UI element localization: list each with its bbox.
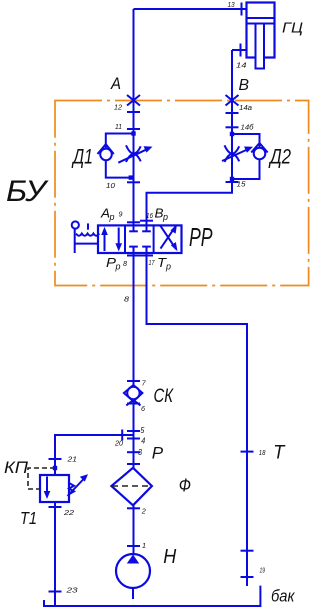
- wire Bp line (Д2 down to valve port Bp): [147, 179, 233, 226]
- svg-text:А: А: [100, 207, 110, 221]
- pin tick 11: [127, 128, 140, 130]
- pin tick 16: [140, 220, 153, 222]
- pin tick 6: [127, 403, 140, 405]
- svg-text:КП: КП: [4, 459, 28, 477]
- svg-text:11: 11: [115, 122, 122, 131]
- svg-text:ГЦ: ГЦ: [282, 20, 303, 37]
- throttle Д1 assembly: [98, 131, 153, 179]
- filter Ф: [111, 464, 151, 508]
- svg-text:17: 17: [149, 260, 156, 267]
- svg-text:20: 20: [114, 439, 124, 448]
- svg-text:18: 18: [259, 450, 266, 457]
- svg-text:10: 10: [106, 181, 116, 190]
- svg-text:16: 16: [146, 213, 153, 220]
- arrow of Д1 adjustable: [118, 148, 149, 162]
- wire branch to relief valve Т1: [55, 435, 134, 475]
- tank бак: [44, 586, 260, 606]
- node A crossing mark: [127, 95, 140, 106]
- pin tick 15: [226, 181, 239, 183]
- position 1 parallel arrows: [104, 231, 106, 251]
- directional valve РР: [98, 224, 182, 253]
- pin tick 2: [127, 507, 140, 509]
- svg-text:БУ: БУ: [6, 175, 49, 208]
- pin tick 8: [127, 255, 140, 257]
- cylinder ГЦ: [247, 3, 275, 69]
- svg-text:Р: Р: [152, 444, 164, 463]
- svg-text:бак: бак: [271, 587, 295, 606]
- svg-text:А: А: [110, 75, 121, 93]
- svg-text:12: 12: [114, 103, 123, 112]
- pin tick 1: [127, 545, 140, 547]
- svg-text:14а: 14а: [239, 105, 252, 112]
- node junction dot Д1 top: [131, 131, 135, 135]
- svg-text:р: р: [109, 212, 115, 223]
- pin tick 21: [49, 458, 62, 460]
- throttle Д2 assembly: [222, 132, 268, 181]
- svg-text:15: 15: [237, 180, 247, 189]
- check valve of Д1 (circle and seat): [100, 149, 112, 161]
- svg-text:23: 23: [65, 586, 78, 595]
- svg-text:р: р: [165, 262, 171, 273]
- svg-text:5: 5: [140, 426, 144, 435]
- position 2 closed center T stubs: [133, 225, 135, 231]
- svg-text:Т1: Т1: [20, 508, 37, 528]
- pin tick filter top: [127, 463, 140, 465]
- arrow of Д2 adjustable: [222, 149, 250, 162]
- svg-text:19: 19: [260, 568, 266, 575]
- relief valve Т1: [28, 459, 88, 606]
- pin tick 3: [127, 451, 140, 453]
- svg-text:14б: 14б: [241, 124, 255, 132]
- pin tick 22: [49, 506, 62, 508]
- lever control of РР: [72, 221, 100, 253]
- svg-text:2: 2: [141, 507, 147, 516]
- node B crossing mark: [226, 95, 239, 106]
- pilot dashed line КП: [28, 468, 55, 489]
- svg-text:Ф: Ф: [179, 476, 191, 496]
- svg-text:21: 21: [66, 455, 77, 464]
- frame БУ dash-dot border: [55, 101, 309, 286]
- pin tick 10: [127, 181, 140, 183]
- wire cylinder port 14 stub: [232, 49, 247, 51]
- pin tick 7: [127, 380, 140, 382]
- wire P line (valve Pp down to pump): [133, 253, 135, 554]
- pin tick 14б: [226, 126, 239, 128]
- svg-text:Д2: Д2: [268, 146, 291, 169]
- position 3 crossed arrows: [161, 226, 177, 249]
- pin tick T upper: [241, 550, 254, 552]
- svg-text:В: В: [239, 77, 250, 94]
- wire A line (main vertical from top to valve Ap): [133, 9, 135, 226]
- svg-text:Н: Н: [163, 545, 176, 568]
- svg-text:3: 3: [138, 448, 142, 457]
- throttle arcs of Д1: [126, 145, 141, 153]
- pin tick 5: [127, 430, 140, 432]
- pin tick 13: [241, 3, 243, 16]
- node junction dot Д1 bottom: [129, 175, 133, 179]
- svg-text:9: 9: [119, 212, 123, 219]
- svg-text:22: 22: [63, 508, 75, 517]
- valve body three squares: [98, 225, 182, 253]
- svg-text:СК: СК: [154, 386, 175, 407]
- pin tick 14: [240, 44, 242, 57]
- wire top horizontal from A line to cylinder port 13: [134, 8, 247, 10]
- adjust arrow of Т1: [68, 478, 86, 497]
- pin tick 18: [241, 451, 254, 453]
- svg-text:4: 4: [141, 437, 145, 446]
- svg-text:р: р: [162, 212, 168, 223]
- wire B line vertical (cylinder to Д2): [231, 50, 233, 192]
- spring of Т1: [69, 483, 74, 494]
- check valve of Д2 (circle and seat): [254, 148, 266, 160]
- wire Д2 bypass branch: [232, 134, 260, 179]
- svg-text:14: 14: [236, 61, 247, 70]
- throttle arcs of Д2: [225, 145, 240, 153]
- pin tick 14a: [226, 112, 239, 114]
- node junction dot Д2 top: [230, 132, 234, 136]
- node junction dot Д2 bottom: [230, 177, 234, 181]
- svg-text:Т: Т: [273, 441, 286, 463]
- pin tick 20: [121, 430, 123, 441]
- wire Т1 drain to tank: [54, 502, 56, 606]
- svg-text:13: 13: [228, 0, 236, 9]
- svg-text:Д1: Д1: [71, 146, 93, 169]
- node junction dot pilot: [53, 466, 57, 470]
- pin tick 17: [140, 255, 153, 257]
- pin tick 12: [127, 111, 140, 113]
- svg-text:р: р: [115, 262, 121, 273]
- wire Д1 bypass branch: [106, 134, 134, 178]
- pin tick 4: [127, 438, 140, 440]
- svg-text:1: 1: [142, 541, 146, 550]
- pin tick 23: [49, 591, 62, 593]
- svg-text:РР: РР: [189, 224, 213, 252]
- pin tick 19: [241, 576, 254, 578]
- pin tick 9: [127, 221, 140, 223]
- pump Н: [116, 554, 150, 599]
- wire T line (valve Tp down and right to tank): [147, 253, 248, 586]
- check valve СК: [124, 381, 142, 405]
